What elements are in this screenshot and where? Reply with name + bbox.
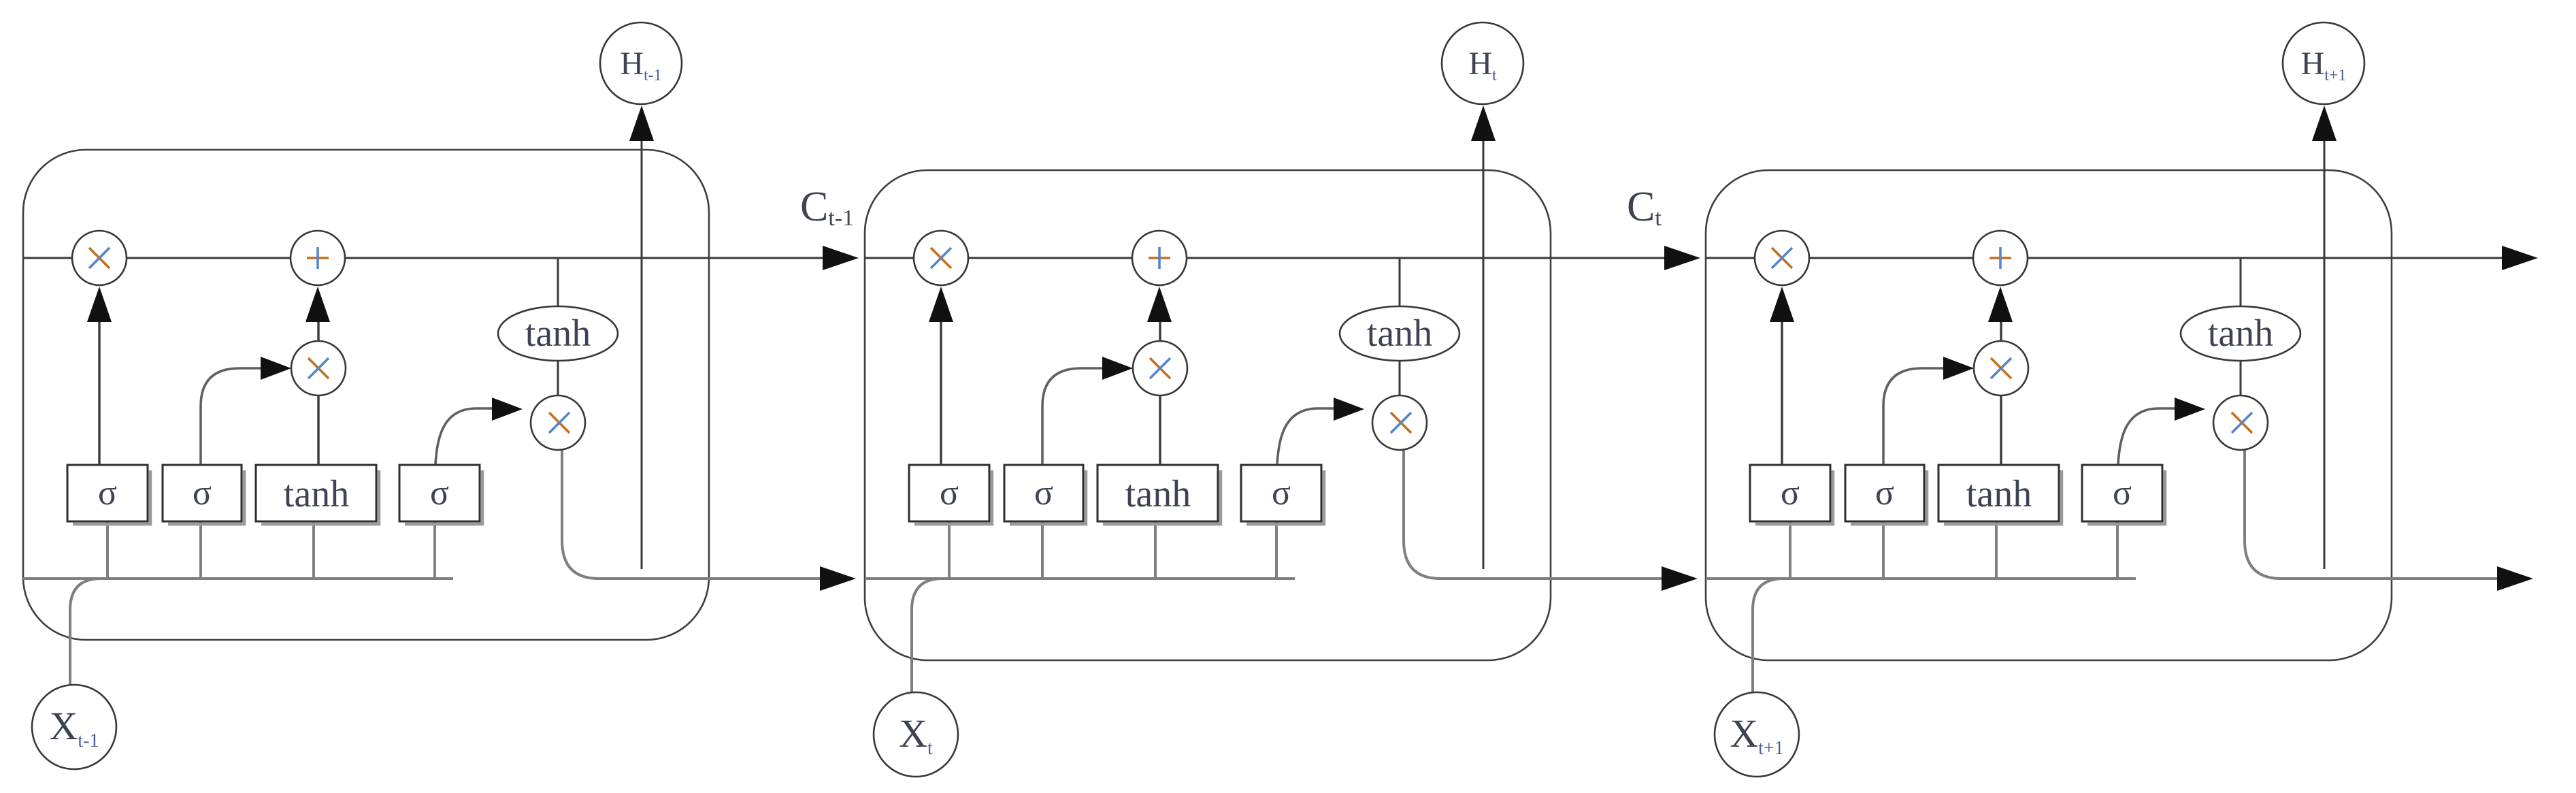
wire cell 3 output sigma to hidden line xyxy=(2116,521,2119,579)
wire cell 3 tanh ellipse to output multiply xyxy=(2240,359,2242,398)
arrowhead cell 3 hidden-state output xyxy=(2497,566,2533,591)
wire cell 2 tanh box to input multiply xyxy=(1159,393,1161,465)
arrowhead cell 3 output gate into multiply xyxy=(2175,398,2205,421)
svg-text:tanh: tanh xyxy=(1966,473,2032,515)
wire cell 1 forget gate sigma to multiply xyxy=(98,319,100,465)
wire cell 2 forget sigma to hidden line xyxy=(948,521,951,579)
wire cell 1 H output vertical line xyxy=(641,140,643,569)
wire cell 1 C line to tanh ellipse xyxy=(557,258,559,308)
multiply gate cell 2 input xyxy=(1133,341,1187,395)
multiply gate cell 2 forget (on C line) xyxy=(914,231,968,285)
wire cell 2 input sigma to hidden line xyxy=(1041,521,1044,579)
wire cell 2 hidden-state input line xyxy=(865,577,1295,580)
node cell 2 H output circle xyxy=(1442,22,1523,104)
wire cell 3 input sigma to hidden line xyxy=(1882,521,1885,579)
gate box cell 1 input sigma xyxy=(168,470,244,524)
wire cell 3 output multiply to hidden line xyxy=(2245,448,2281,579)
wire cell 3 output gate sigma curve xyxy=(2118,408,2177,465)
arrowhead cell 1 output gate into multiply xyxy=(492,398,523,421)
arrowhead cell 1 forget gate into multiply xyxy=(87,287,112,322)
wire cell 2 C line to tanh ellipse xyxy=(1399,258,1401,308)
wire cell 3 tanh box to input multiply xyxy=(2000,393,2002,465)
svg-text:σ: σ xyxy=(1034,474,1053,513)
svg-text:tanh: tanh xyxy=(2208,312,2273,355)
multiply gate cell 3 forget (on C line) xyxy=(1755,231,1809,285)
gate box cell 2 output sigma xyxy=(1246,470,1324,524)
wire cell 1 input gate sigma curve xyxy=(201,368,261,465)
multiply gate cell 1 forget (on C line) xyxy=(72,231,127,285)
tanh ellipse cell 1 xyxy=(498,306,618,361)
wire cell 1 X input connector xyxy=(70,579,101,685)
arrowhead cell 3 C line output xyxy=(2502,246,2538,270)
wire cell 1 input multiply to plus xyxy=(317,319,319,342)
svg-text:tanh: tanh xyxy=(1367,312,1432,355)
wire cell 2 output sigma to hidden line xyxy=(1275,521,1278,579)
arrowhead cell 2 C line output xyxy=(1664,246,1700,270)
arrowhead cell 3 into plus xyxy=(1988,287,2013,322)
node cell 3 H output circle xyxy=(2283,22,2364,104)
cell 3 body rounded rectangle xyxy=(1706,170,2392,660)
wire cell 2 forget gate sigma to multiply xyxy=(940,319,942,465)
wire cell 2 cell-state C line xyxy=(865,257,1664,259)
plus gate cell 3 (on C line) xyxy=(1973,231,2028,285)
wire cell 2 input multiply to plus xyxy=(1159,319,1161,342)
wire cell 1 hidden-state output line xyxy=(596,577,820,580)
svg-text:σ: σ xyxy=(1272,474,1291,513)
svg-text:σ: σ xyxy=(2113,474,2132,513)
wire cell 3 H output vertical line xyxy=(2324,140,2326,569)
svg-text:σ: σ xyxy=(1875,474,1894,513)
arrowhead cell 1 C line output xyxy=(823,246,859,270)
wire cell 1 input sigma to hidden line xyxy=(199,521,202,579)
svg-text:tanh: tanh xyxy=(284,473,349,515)
arrowhead cell 1 input gate into multiply xyxy=(261,357,291,380)
cell 2 body rounded rectangle xyxy=(865,170,1551,660)
node cell 2 X input circle xyxy=(874,692,958,777)
gate box cell 3 input sigma xyxy=(1851,470,1927,524)
arrowhead cell 2 into plus xyxy=(1147,287,1172,322)
wire cell 2 input gate sigma curve xyxy=(1042,368,1103,465)
gate box cell 3 output sigma xyxy=(2087,470,2165,524)
multiply gate cell 2 output xyxy=(1372,395,1427,450)
tanh ellipse cell 2 xyxy=(1340,306,1459,361)
gate box cell 3 candidate tanh xyxy=(1944,470,2062,524)
wire cell 1 tanh box to input multiply xyxy=(317,393,319,465)
wire cell 1 output sigma to hidden line xyxy=(433,521,436,579)
wire cell 3 hidden-state output line xyxy=(2279,577,2498,580)
arrowhead cell 2 input gate into multiply xyxy=(1102,357,1133,380)
wire cell 1 output gate sigma curve xyxy=(435,408,494,465)
multiply gate cell 3 input xyxy=(1974,341,2028,395)
arrowhead cell 3 input gate into multiply xyxy=(1943,357,1974,380)
plus gate cell 1 (on C line) xyxy=(291,231,345,285)
arrowhead cell 3 H output xyxy=(2312,106,2336,141)
arrowhead cell 2 output gate into multiply xyxy=(1334,398,1364,421)
wire cell 1 tanh box to hidden line xyxy=(312,521,315,579)
arrowhead cell 2 H output xyxy=(1471,106,1496,141)
wire cell 3 tanh box to hidden line xyxy=(1995,521,1998,579)
svg-text:σ: σ xyxy=(98,474,117,513)
svg-text:σ: σ xyxy=(193,474,212,513)
wire cell 2 X input connector xyxy=(912,579,942,693)
arrowhead cell 1 into plus xyxy=(306,287,330,322)
gate box cell 2 candidate tanh xyxy=(1103,470,1221,524)
multiply gate cell 3 output xyxy=(2213,395,2268,450)
node cell 3 X input circle xyxy=(1715,692,1799,777)
node cell 1 H output circle xyxy=(600,22,682,104)
cell 1 body rounded rectangle xyxy=(23,150,709,640)
svg-text:σ: σ xyxy=(430,474,449,513)
tanh ellipse cell 3 xyxy=(2181,306,2300,361)
wire cell 2 hidden-state output line xyxy=(1438,577,1662,580)
wire cell 1 output multiply to hidden line xyxy=(562,448,599,579)
gate box cell 1 forget sigma xyxy=(73,470,150,524)
gate box cell 3 forget sigma xyxy=(1755,470,1833,524)
gate box cell 2 input sigma xyxy=(1010,470,1086,524)
wire cell 2 tanh box to hidden line xyxy=(1154,521,1157,579)
wire cell 3 forget sigma to hidden line xyxy=(1789,521,1791,579)
svg-text:σ: σ xyxy=(1781,474,1800,513)
wire cell 2 output gate sigma curve xyxy=(1277,408,1336,465)
gate box cell 2 forget sigma xyxy=(914,470,992,524)
gate box cell 1 candidate tanh xyxy=(261,470,379,524)
wire cell 2 H output vertical line xyxy=(1483,140,1485,569)
wire cell 3 X input connector xyxy=(1753,579,1783,693)
wire cell 3 cell-state C line xyxy=(1706,257,2502,259)
wire cell 3 hidden-state input line xyxy=(1706,577,2136,580)
wire cell 1 cell-state C line xyxy=(23,257,823,259)
multiply gate cell 1 input xyxy=(291,341,346,395)
arrowhead cell 1 hidden-state output xyxy=(820,566,856,591)
arrowhead cell 2 forget gate into multiply xyxy=(929,287,953,322)
svg-text:tanh: tanh xyxy=(1125,473,1191,515)
svg-text:tanh: tanh xyxy=(525,312,591,355)
node cell 1 X input circle xyxy=(32,685,116,769)
wire cell 2 tanh ellipse to output multiply xyxy=(1399,359,1401,398)
svg-text:σ: σ xyxy=(940,474,959,513)
wire cell 3 input multiply to plus xyxy=(2000,319,2002,342)
wire cell 1 forget sigma to hidden line xyxy=(106,521,109,579)
wire cell 3 C line to tanh ellipse xyxy=(2240,258,2242,308)
multiply gate cell 1 output xyxy=(531,395,585,450)
arrowhead cell 2 hidden-state output xyxy=(1662,566,1698,591)
arrowhead cell 3 forget gate into multiply xyxy=(1770,287,1794,322)
wire cell 3 input gate sigma curve xyxy=(1883,368,1944,465)
wire cell 3 forget gate sigma to multiply xyxy=(1781,319,1783,465)
gate box cell 1 output sigma xyxy=(405,470,482,524)
wire cell 1 tanh ellipse to output multiply xyxy=(557,359,559,398)
plus gate cell 2 (on C line) xyxy=(1132,231,1187,285)
wire cell 1 hidden-state input line xyxy=(23,577,453,580)
wire cell 2 output multiply to hidden line xyxy=(1404,448,1440,579)
arrowhead cell 1 H output xyxy=(629,106,654,141)
